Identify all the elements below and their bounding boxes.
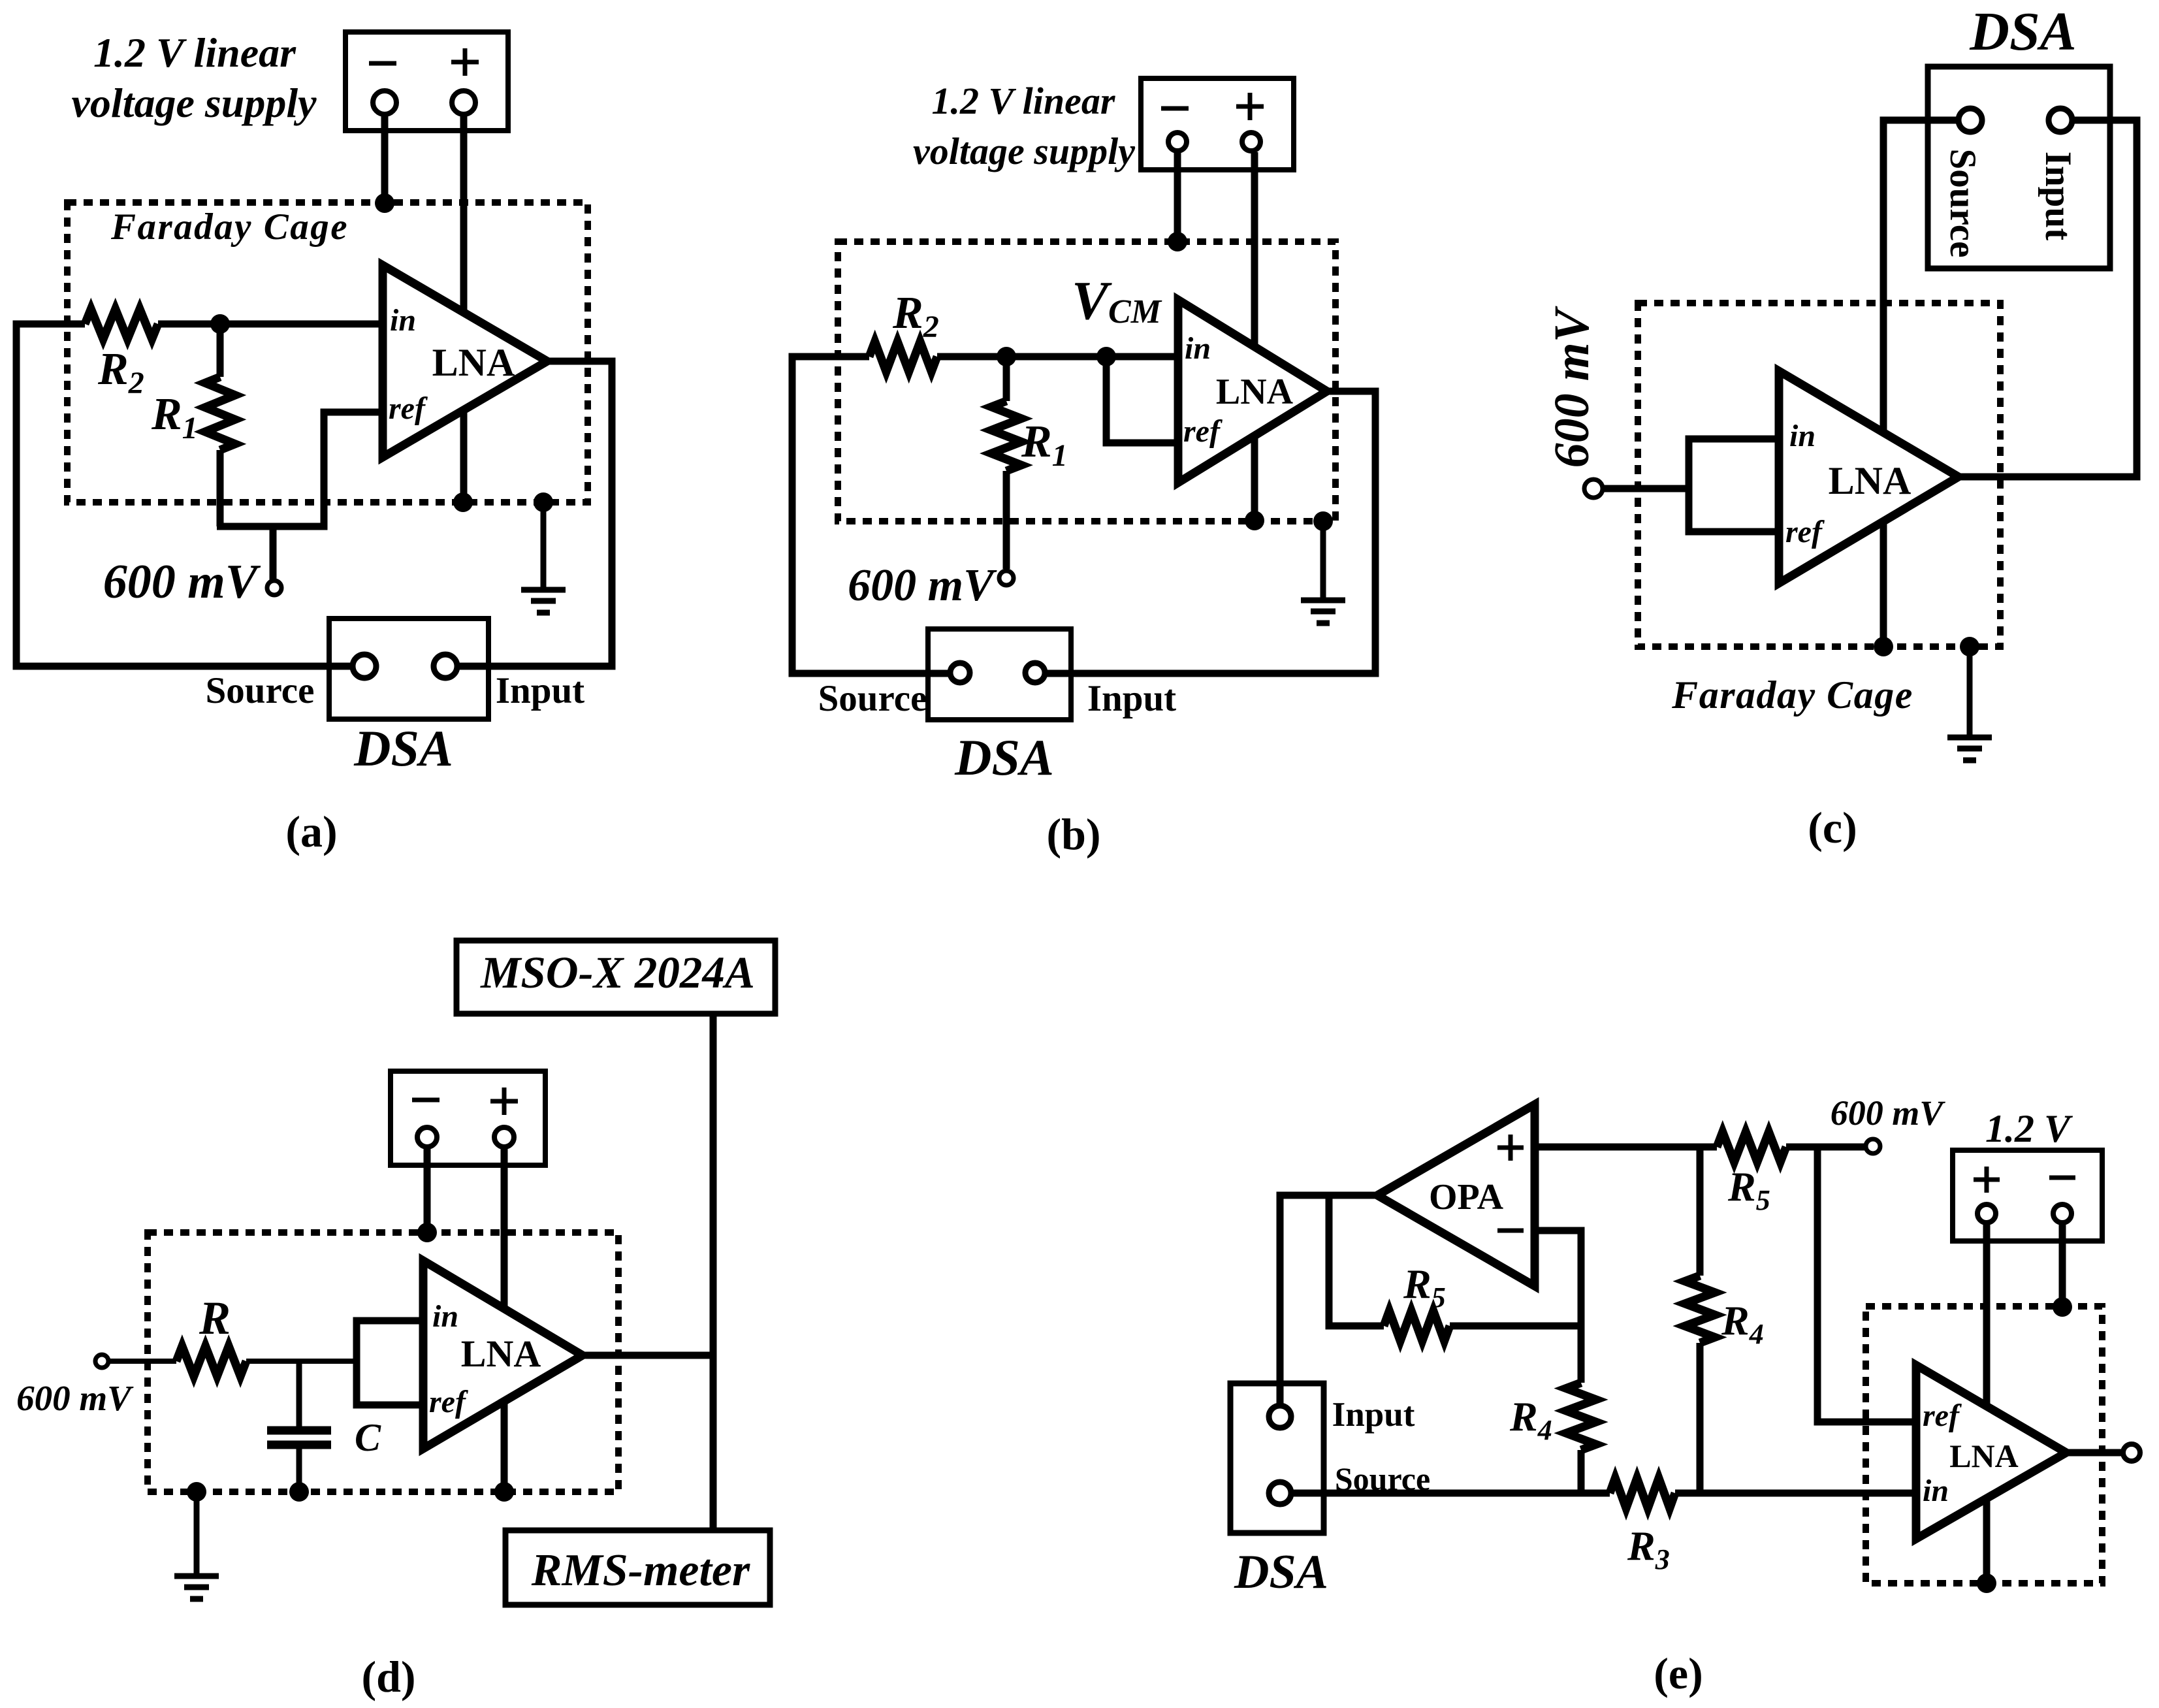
pin label in (a) [390, 303, 416, 338]
label R (d) [199, 1292, 231, 1344]
node PS4 minus cage (e) [2053, 1297, 2072, 1317]
label (c) [1808, 803, 1857, 852]
label R4 right (e) [1721, 1297, 1764, 1350]
svg-text:in: in [1789, 419, 1815, 453]
svg-text:Input: Input [2038, 152, 2079, 240]
wire 600 mV stub (a) [270, 526, 277, 580]
wire ref return (a) [217, 412, 383, 526]
MSO-X 2024A box [456, 941, 775, 1014]
pin label ref (c) [1785, 515, 1825, 549]
DSA Input terminal (b) [1025, 663, 1045, 683]
wire 600 mV to in/ref short (c) [1603, 485, 1689, 492]
DSA Input terminal (c) [2049, 108, 2072, 132]
svg-text:DSA: DSA [1234, 1545, 1328, 1599]
DSA Input terminal (a) [434, 654, 457, 678]
label 600 mV (c) [1544, 306, 1599, 468]
Faraday cage (d) [148, 1233, 618, 1492]
label R3 (e) [1627, 1523, 1670, 1575]
pin label in (b) [1185, 331, 1211, 366]
label Input (c) [2038, 152, 2079, 240]
node on cage top (d) [417, 1223, 437, 1242]
svg-text:LNA: LNA [432, 341, 515, 384]
wire OPA output to DSA Input (e) [1280, 1195, 1377, 1406]
ground (c) [1947, 647, 1992, 760]
wire source loop left (a) [16, 324, 353, 666]
pin label ref (b) [1183, 414, 1223, 449]
wire R to in/ref short (d) [246, 1359, 357, 1364]
svg-text:Input: Input [1087, 678, 1176, 719]
label (e) [1654, 1649, 1703, 1698]
wire in/ref short bracket (d) [357, 1321, 423, 1405]
Faraday cage (c) [1638, 303, 2000, 647]
resistor R (d) [176, 1346, 246, 1376]
svg-text:Input: Input [1332, 1396, 1415, 1434]
label 1.2 V linear voltage supply [71, 29, 317, 126]
svg-text:Source: Source [206, 670, 315, 711]
Faraday cage (a) [67, 202, 588, 502]
svg-text:voltage supply: voltage supply [913, 130, 1135, 172]
wire feedback drop (e) [1329, 1195, 1384, 1326]
label DSA (c) [1969, 1, 2076, 62]
ground (d) [174, 1492, 219, 1599]
wire Source line (e) [1291, 1490, 1916, 1497]
wire MSO-X to RMS-meter [710, 1014, 717, 1530]
pin label in (e) [1923, 1474, 1949, 1508]
resistor R4 left (e) [1566, 1383, 1596, 1450]
terminal 600 mV (e) [1866, 1139, 1880, 1153]
label (a) [285, 807, 337, 856]
label DSA (b) [954, 729, 1054, 786]
wire PS2 minus to cage (b) [1174, 152, 1181, 242]
svg-text:600 mV: 600 mV [848, 560, 997, 611]
label Input (a) [496, 670, 584, 711]
RMS-meter box [505, 1530, 770, 1605]
label Faraday Cage (a) [110, 206, 349, 248]
label (b) [1046, 809, 1100, 859]
svg-text:MSO-X 2024A: MSO-X 2024A [480, 948, 755, 997]
svg-text:ref: ref [429, 1385, 468, 1419]
svg-text:(e): (e) [1654, 1649, 1703, 1698]
terminal 600 mV (d) [95, 1355, 108, 1368]
pin label in (d) [432, 1299, 458, 1334]
terminal LNA output (e) [2123, 1444, 2140, 1461]
op-amp LNA (c) [1779, 371, 1959, 583]
label Source (b) [818, 678, 927, 719]
label Source (c) [1942, 149, 1983, 258]
svg-text:ref: ref [1785, 515, 1825, 549]
svg-text:in: in [1923, 1474, 1949, 1508]
wire R5 feedback to minus node (e) [1450, 1323, 1581, 1330]
label LNA (d) [461, 1332, 541, 1375]
resistor R1 (a) [205, 324, 235, 526]
svg-text:1.2 V linear: 1.2 V linear [932, 80, 1115, 122]
resistor R1 (b) [991, 357, 1021, 569]
node on cage top (b) [1168, 232, 1187, 251]
svg-text:Input: Input [496, 670, 584, 711]
wire in/ref short bracket (c) [1689, 439, 1779, 532]
node capacitor ground (d) [289, 1482, 309, 1502]
svg-text:ref: ref [389, 391, 428, 426]
svg-text:Source: Source [818, 678, 927, 719]
ground (b) [1301, 521, 1345, 623]
pin label ref (a) [389, 391, 428, 426]
svg-text:C: C [355, 1416, 381, 1459]
svg-text:voltage supply: voltage supply [71, 80, 317, 126]
wire LNA output (d) [583, 1352, 713, 1359]
wire 600mV to LNA ref (e) [1817, 1147, 1916, 1422]
resistor R2 (b) [869, 342, 937, 372]
wire LNA output (e) [2066, 1449, 2121, 1457]
label 600 mV (b) [848, 560, 997, 611]
PS4 plus symbol [1974, 1167, 2000, 1193]
wire PS1 minus to Faraday cage [381, 116, 389, 203]
label DSA (e) [1234, 1545, 1328, 1599]
label LNA (a) [432, 341, 515, 384]
DSA Source terminal (e) [1269, 1482, 1291, 1504]
label R1 (b) [1021, 417, 1068, 473]
node LNA supply bottom (c) [1874, 637, 1893, 656]
label VCM (b) [1072, 270, 1162, 331]
svg-text:DSA: DSA [954, 729, 1054, 786]
ground (a) [521, 502, 566, 613]
svg-text:600 mV: 600 mV [16, 1378, 134, 1418]
label Faraday Cage (c) [1671, 673, 1913, 717]
label Input (e) [1332, 1396, 1415, 1434]
power supply 1.2V box (e) [1953, 1150, 2102, 1241]
wire PS2 plus to LNA supply (b) [1251, 152, 1258, 521]
wire PS3 minus to cage (d) [424, 1148, 431, 1233]
PS4 minus symbol [2049, 1176, 2075, 1180]
PS1 plus symbol [451, 48, 479, 76]
PS2 plus terminal [1242, 133, 1260, 151]
wire PS4 minus to cage (e) [2059, 1225, 2066, 1307]
wire OPA minus to R4 (e) [1535, 1231, 1581, 1383]
node LNA supply bottom (e) [1977, 1573, 1996, 1593]
op-amp LNA (a) [383, 265, 547, 457]
wire LNA output to DSA Input (a) [457, 361, 612, 666]
node on cage top (a) [375, 193, 394, 213]
DSA box (e) [1230, 1383, 1324, 1533]
PS3 plus terminal [494, 1127, 514, 1147]
svg-text:Faraday Cage: Faraday Cage [1671, 673, 1913, 717]
label 1.2 V linear voltage supply (b) [913, 80, 1135, 172]
node ground tap (a) [534, 492, 553, 512]
terminal 600 mV (a) [267, 581, 281, 595]
label DSA (a) [353, 720, 453, 777]
node R1 top (b) [997, 347, 1016, 366]
node VCM (b) [1096, 347, 1116, 366]
wire R4 left to source line (e) [1578, 1450, 1585, 1493]
resistor R4 right (e) [1685, 1147, 1715, 1493]
svg-text:in: in [1185, 331, 1211, 366]
svg-text:600 mV: 600 mV [103, 555, 261, 609]
label MSO-X 2024A [480, 948, 755, 997]
DSA Input terminal (e) [1269, 1406, 1291, 1428]
PS4 plus terminal [1977, 1204, 1996, 1223]
label R1 (a) [151, 389, 198, 445]
label RMS-meter [531, 1545, 750, 1596]
label Source (a) [206, 670, 315, 711]
svg-text:in: in [432, 1299, 458, 1334]
power supply PS1 (1.2 V linear voltage supply) box [345, 32, 508, 131]
pin label ref (d) [429, 1385, 468, 1419]
terminal 600 mV (b) [999, 571, 1014, 585]
label Source (e) [1335, 1460, 1430, 1497]
wire R2 to LNA in (b) [937, 353, 1178, 361]
svg-text:LNA: LNA [1949, 1438, 2019, 1474]
wire VCM to ref (b) [1106, 357, 1178, 443]
terminal 600 mV (c) [1584, 479, 1603, 498]
op-amp LNA (d) [423, 1261, 583, 1449]
label R4 left (e) [1509, 1393, 1552, 1446]
DSA Source terminal (c) [1959, 108, 1982, 132]
Faraday cage (e) [1866, 1306, 2102, 1583]
op-amp LNA (b) [1178, 300, 1327, 483]
power supply PS2 box (b) [1141, 78, 1294, 170]
svg-text:(b): (b) [1046, 809, 1100, 859]
svg-text:DSA: DSA [1969, 1, 2076, 62]
label LNA (e) [1949, 1438, 2019, 1474]
node LNA supply bottom (b) [1245, 511, 1264, 530]
DSA Source terminal (b) [950, 663, 970, 683]
resistor R2 (a) [85, 309, 158, 339]
svg-text:ref: ref [1923, 1398, 1962, 1433]
wire PS1 plus to LNA supply (a) [460, 116, 468, 502]
svg-text:LNA: LNA [1216, 372, 1294, 412]
label R5 feedback (e) [1403, 1261, 1446, 1313]
label C (d) [355, 1416, 381, 1459]
DSA box (b) [928, 629, 1071, 720]
label LNA (b) [1216, 372, 1294, 412]
DSA box (a) [329, 619, 488, 719]
DSA box (c) [1928, 67, 2110, 268]
PS1 minus symbol [369, 61, 396, 66]
node ground tap (d) [187, 1482, 206, 1502]
node LNA supply bottom (d) [494, 1482, 514, 1502]
label 600 mV (a) [103, 555, 261, 609]
label 600 mV (e) [1831, 1093, 1946, 1133]
pin label in (c) [1789, 419, 1815, 453]
PS3 minus terminal [417, 1127, 437, 1147]
svg-text:Source: Source [1942, 149, 1983, 258]
svg-text:OPA: OPA [1429, 1177, 1504, 1217]
PS2 minus symbol [1161, 106, 1189, 111]
wire 600 mV to R (d) [108, 1359, 176, 1364]
wire DSA Source to cage ground (c) [1883, 120, 1959, 647]
PS3 plus symbol [490, 1088, 518, 1115]
svg-text:(d): (d) [361, 1652, 415, 1701]
PS2 plus symbol [1236, 93, 1264, 120]
OPA minus input symbol [1497, 1229, 1524, 1233]
op-amp LNA (e) [1916, 1365, 2066, 1539]
label OPA [1429, 1177, 1504, 1217]
svg-text:Faraday Cage: Faraday Cage [110, 206, 349, 248]
svg-text:LNA: LNA [1829, 459, 1911, 502]
svg-text:R: R [199, 1292, 231, 1344]
pin label ref (e) [1923, 1398, 1962, 1433]
wire OPA plus to 600 mV (e) [1535, 1144, 1865, 1151]
svg-text:ref: ref [1183, 414, 1223, 449]
node R2/R1 junction (a) [210, 314, 230, 334]
Faraday cage (b) [838, 242, 1335, 521]
svg-text:in: in [390, 303, 416, 338]
PS1 plus terminal [452, 91, 475, 114]
wire source loop left (b) [792, 357, 950, 673]
node LNA supply bottom (a) [453, 492, 473, 512]
label R2 (b) [892, 288, 939, 344]
power supply PS3 box (d) [391, 1071, 545, 1165]
wire PS3 plus to LNA supply (d) [501, 1148, 508, 1492]
svg-text:DSA: DSA [353, 720, 453, 777]
DSA Source terminal (a) [353, 654, 376, 678]
label Input (b) [1087, 678, 1176, 719]
PS4 minus terminal [2053, 1204, 2071, 1223]
svg-text:600 mV: 600 mV [1544, 306, 1599, 468]
label 600 mV (d) [16, 1378, 134, 1418]
svg-text:(a): (a) [285, 807, 337, 856]
label R2 (a) [97, 344, 144, 400]
wire DSA Input loop (c) [1959, 120, 2137, 477]
wire R2 to LNA in (a) [158, 321, 383, 328]
PS1 minus terminal [373, 91, 396, 114]
resistor R5 top (e) [1717, 1132, 1786, 1162]
label (d) [361, 1652, 415, 1701]
capacitor C (d) [267, 1361, 331, 1492]
PS2 minus terminal [1168, 133, 1187, 151]
resistor R3 (e) [1610, 1478, 1675, 1508]
node ground tap (c) [1960, 637, 1979, 656]
svg-text:1.2 V: 1.2 V [1985, 1107, 2073, 1150]
svg-text:(c): (c) [1808, 803, 1857, 852]
wire LNA output to DSA Input (b) [1045, 391, 1375, 673]
label LNA (c) [1829, 459, 1911, 502]
svg-text:1.2 V linear: 1.2 V linear [93, 29, 296, 76]
svg-text:RMS-meter: RMS-meter [531, 1545, 750, 1596]
label 1.2 V (e) [1985, 1107, 2073, 1150]
op-amp OPA (e) [1377, 1104, 1535, 1286]
label R5 top (e) [1727, 1163, 1770, 1216]
OPA plus input symbol [1497, 1135, 1524, 1161]
wire PS4 plus to LNA supply (e) [1983, 1225, 1991, 1583]
node ground tap (b) [1313, 511, 1333, 531]
svg-text:LNA: LNA [461, 1332, 541, 1375]
svg-text:600 mV: 600 mV [1831, 1093, 1946, 1133]
PS3 minus symbol [412, 1098, 440, 1103]
resistor R5 feedback (e) [1384, 1311, 1450, 1341]
